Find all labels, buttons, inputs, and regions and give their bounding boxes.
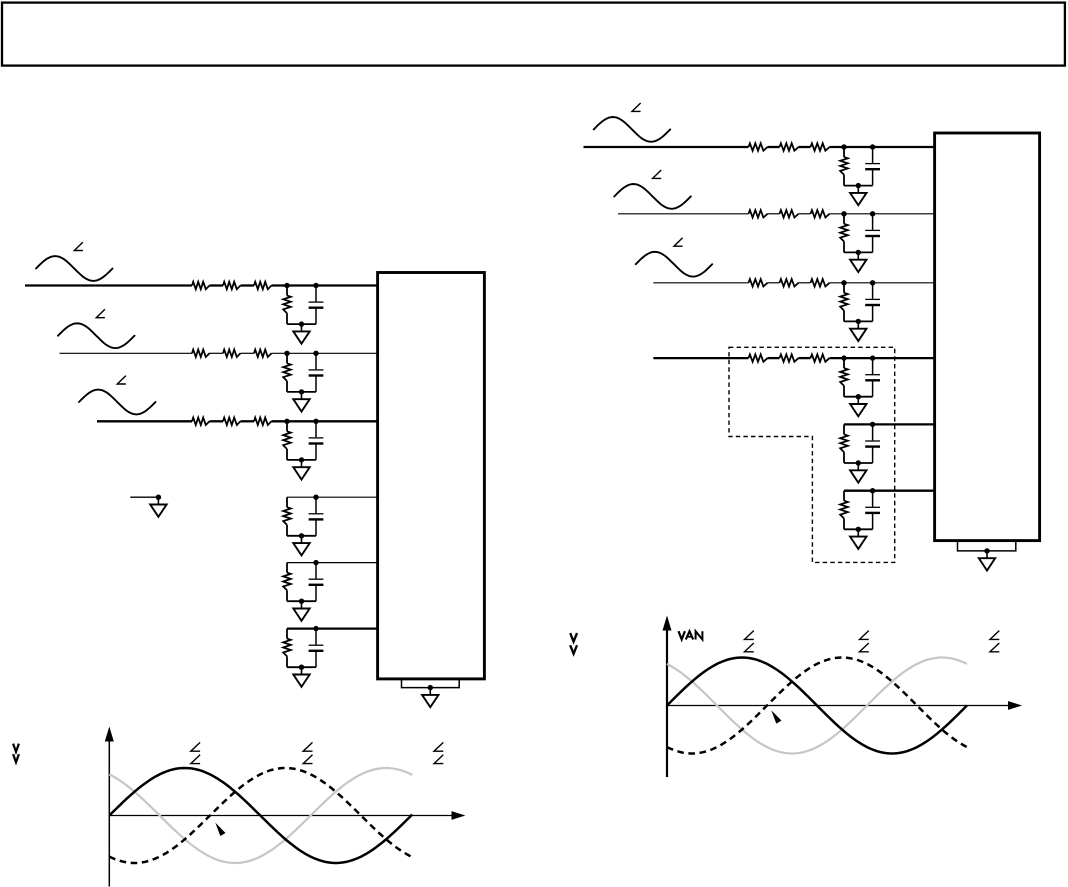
ground (RC filter F2) [850,529,866,549]
ac source VB (sine symbol) [58,323,135,348]
ac source VA (sine symbol) [36,256,113,281]
resistor RD2 (shunt filter resistor) [840,358,848,397]
ground (RC filter C2) [850,321,866,341]
resistor RC (shunt filter resistor) [283,421,291,460]
capacitor CD2 (shunt filter capacitor) [865,358,880,397]
ground (RC filter B2) [850,252,866,272]
curve (phase B waveform, dashed, left plot) [109,768,412,863]
ground (RC filter D) [293,536,309,556]
resistor RD23 (series antialias resistor) [811,354,830,361]
ground (RC filter C) [293,460,309,480]
junction (ground node of RC filter F) [299,665,304,670]
junction (ground node of RC filter A) [299,321,304,326]
resistor RA3 (series antialias resistor) [254,282,272,289]
resistor RF2 (shunt filter resistor) [840,491,848,530]
marker arrow (phase shift pointer, left plot) [215,823,225,836]
capacitor CB2 (shunt filter capacitor) [865,214,880,253]
junction (node F2 at shunt capacitor top) [870,488,875,493]
wire (bottom of RC filter B2) [844,251,873,253]
junction (node B at shunt capacitor top) [313,351,318,356]
wire (input line B2) [618,213,935,215]
junction (U1 ground node) [428,685,433,690]
resistor RB23 (series antialias resistor) [811,210,830,217]
resistor RA (shunt filter resistor) [283,286,291,325]
resistor RD22 (series antialias resistor) [780,354,799,361]
curve (phase A waveform, solid, right plot) [667,658,967,754]
junction (ground node of RC filter D2) [856,394,861,399]
junction (node C2 at shunt resistor top) [841,280,846,285]
wire (phase C input line) [97,420,378,422]
wire (input line D to IC) [287,496,378,498]
junction (ground node of RC filter B2) [856,250,861,255]
capacitor CC2 (shunt filter capacitor) [865,283,880,322]
capacitor CE (shunt filter capacitor) [309,563,324,602]
curve (phase C waveform, gray, left plot) [109,768,412,863]
wire (input line F to IC) [287,627,378,629]
curve (phase B waveform, dashed, right plot) [667,658,967,754]
junction (node B2 at shunt capacitor top) [870,211,875,216]
resistor RD21 (series antialias resistor) [749,354,768,361]
junction (node B at shunt resistor top) [284,351,289,356]
label (right plot y-axis V) [570,633,577,642]
wire (U1 AGND pin bracket) [402,680,460,688]
resistor RB1 (series antialias resistor) [192,350,210,357]
junction (ground node of RC filter D) [299,533,304,538]
wire (bottom of RC filter D2) [844,396,873,398]
wire (bottom of RC filter E) [287,600,316,602]
wire (U2 AGND pin bracket) [958,542,1016,551]
label (left plot y-axis V 2) [13,754,19,762]
resistor RA21 (series antialias resistor) [749,143,768,150]
phase angle label pair 1 (left plot) [191,742,200,763]
ac source VB2 (sine symbol) [614,184,691,209]
resistor RA2 (shunt filter resistor) [840,147,848,186]
resistor RE (shunt filter resistor) [283,563,291,602]
junction (node B2 at shunt resistor top) [841,211,846,216]
ground (RC filter A2) [850,186,866,206]
junction (ground node of RC filter B) [299,389,304,394]
junction (ground node of RC filter E2) [856,460,861,465]
dashed box (optional filter network outline) [729,347,895,562]
resistor RC23 (series antialias resistor) [811,279,830,286]
phase angle label pair 3 (right plot) [990,631,999,652]
wire (bottom of RC filter A) [287,323,316,325]
junction (U2 ground node) [984,548,989,553]
junction (node C at shunt capacitor top) [313,419,318,424]
capacitor CF (shunt filter capacitor) [309,629,324,668]
phase angle label pair 2 (right plot) [860,631,869,652]
resistor RC2 (series antialias resistor) [223,418,241,425]
phase angle label (VB) [96,309,105,317]
junction (node D at shunt capacitor top) [313,495,318,500]
phase angle label pair 2 (left plot) [303,742,312,763]
capacitor CB (shunt filter capacitor) [309,353,324,392]
resistor RC22 (series antialias resistor) [780,279,799,286]
ac source VA2 (sine symbol) [594,117,671,142]
wire (input line E to IC) [287,562,378,564]
junction (node A2 at shunt resistor top) [841,144,846,149]
resistor RD (shunt filter resistor) [283,497,291,536]
resistor RA23 (series antialias resistor) [811,143,830,150]
wire (input line A2) [584,146,936,148]
figure title box (empty header) [2,3,1065,66]
marker arrow (phase shift pointer, right plot) [771,710,781,723]
phase angle label (VB2) [653,170,662,178]
wire (input line C2) [653,282,935,284]
wire (bottom of RC filter F2) [844,528,873,530]
phase angle label pair 3 (left plot) [434,742,443,763]
resistor RC3 (series antialias resistor) [254,418,272,425]
wire (bottom of RC filter A2) [844,185,873,187]
ground (U1 analog ground) [422,688,438,708]
wire (phase B input line) [60,352,379,354]
axis (left plot horizontal axis) [109,811,465,820]
capacitor CE2 (shunt filter capacitor) [865,424,880,463]
junction (node E2 at shunt capacitor top) [870,422,875,427]
junction (ground node of RC filter A2) [856,183,861,188]
phase angle label pair 1 (right plot) [745,631,754,652]
ground (RC filter B) [293,392,309,412]
label (left plot y-axis V) [13,744,19,752]
junction (node D2 at shunt resistor top) [841,355,846,360]
IC U2 (metering IC, right circuit) [935,133,1040,541]
phase angle label (VC) [117,376,126,384]
label (right plot y-axis V 2) [570,645,577,654]
ground (RC filter D2) [850,397,866,417]
wire (bottom of RC filter E2) [844,462,873,464]
resistor RB3 (series antialias resistor) [254,350,272,357]
axis (right plot horizontal axis) [667,701,1022,710]
wire (input line D2) [653,357,935,359]
capacitor CC (shunt filter capacitor) [309,421,324,460]
junction (node C at shunt resistor top) [284,419,289,424]
IC U1 (metering IC, left circuit) [378,273,485,679]
junction (VN node) [156,495,161,500]
junction (node D2 at shunt capacitor top) [870,355,875,360]
resistor RC21 (series antialias resistor) [749,279,768,286]
curve (phase A waveform, solid, left plot) [109,768,412,863]
ground (VN reference) [150,497,166,517]
ac source VC2 (sine symbol) [636,252,713,277]
ground (U2 analog ground) [979,551,995,571]
resistor RC2 (shunt filter resistor) [840,283,848,322]
capacitor CA (shunt filter capacitor) [309,286,324,325]
ground (RC filter E) [293,601,309,621]
ac source VC (sine symbol) [79,390,156,415]
wire (bottom of RC filter D) [287,535,316,537]
ground (RC filter F) [293,667,309,687]
resistor RB (shunt filter resistor) [283,353,291,392]
axis (right plot vertical axis) [663,616,672,778]
junction (ground node of RC filter C2) [856,319,861,324]
wire (input line F2 to IC) [844,490,935,492]
resistor RB22 (series antialias resistor) [780,210,799,217]
wire (phase A input line) [25,284,378,286]
junction (node A at shunt capacitor top) [313,283,318,288]
capacitor CA2 (shunt filter capacitor) [865,147,880,186]
resistor RA2 (series antialias resistor) [223,282,241,289]
wire (bottom of RC filter C) [287,459,316,461]
curve (phase C waveform, gray, right plot) [667,658,967,754]
resistor RE2 (shunt filter resistor) [840,424,848,463]
axis (left plot vertical axis) [105,727,114,887]
junction (node C2 at shunt capacitor top) [870,280,875,285]
junction (node F at shunt capacitor top) [313,626,318,631]
resistor RF (shunt filter resistor) [283,629,291,668]
wire (bottom of RC filter F) [287,666,316,668]
wire (VN reference stub) [130,496,158,498]
resistor RA22 (series antialias resistor) [780,143,799,150]
phase angle label (VA) [74,242,83,250]
capacitor CD (shunt filter capacitor) [309,497,324,536]
junction (ground node of RC filter E) [299,599,304,604]
ground (RC filter A) [293,324,309,344]
phase angle label (VC2) [674,238,683,246]
resistor RA1 (series antialias resistor) [192,282,210,289]
wire (bottom of RC filter B) [287,391,316,393]
resistor RB2 (shunt filter resistor) [840,214,848,253]
label (VAN axis label, right plot) [679,631,703,639]
resistor RB21 (series antialias resistor) [749,210,768,217]
junction (node A at shunt resistor top) [284,283,289,288]
junction (ground node of RC filter C) [299,457,304,462]
junction (node A2 at shunt capacitor top) [870,144,875,149]
wire (bottom of RC filter C2) [844,320,873,322]
junction (ground node of RC filter F2) [856,527,861,532]
wire (input line E2 to IC) [844,423,935,425]
ground (RC filter E2) [850,463,866,483]
capacitor CF2 (shunt filter capacitor) [865,491,880,530]
resistor RC1 (series antialias resistor) [192,418,210,425]
resistor RB2 (series antialias resistor) [223,350,241,357]
phase angle label (VA2) [632,103,641,111]
junction (node E at shunt capacitor top) [313,560,318,565]
